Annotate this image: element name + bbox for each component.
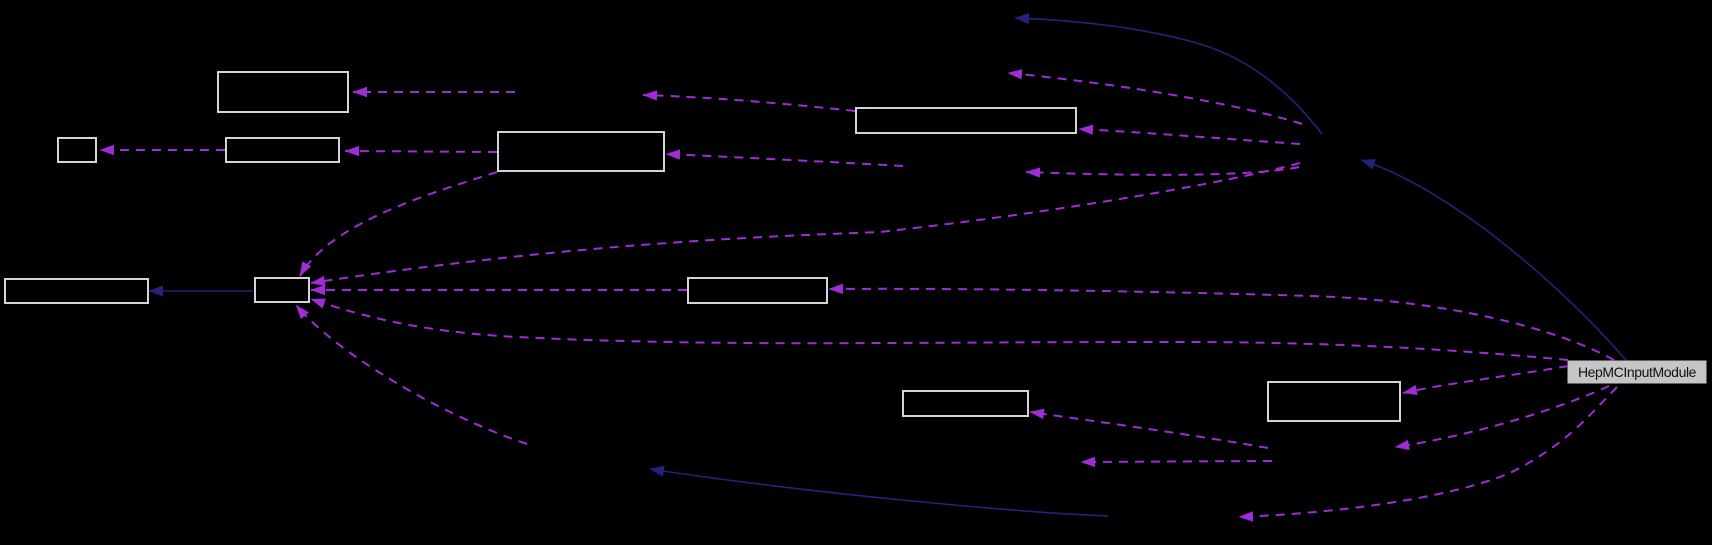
edge P10 (long curve to G upper-right) xyxy=(311,163,1300,283)
edge P19 (flat bottom short) xyxy=(1081,461,1272,462)
edge P15 (D to G top) xyxy=(300,172,497,276)
edge P13 (K to G long flat curve) xyxy=(311,299,1568,360)
node K HepMCInputModule (gray filled) xyxy=(1568,361,1706,383)
node J (bottom-right two-line box) xyxy=(1268,382,1400,421)
node A (top-left two-line box) xyxy=(218,72,348,112)
node G (small hub box) xyxy=(255,278,309,302)
edge P12 (H to G) xyxy=(311,289,687,291)
edge P9 (to mid-air arrowhead y172) xyxy=(1026,167,1299,175)
node C xyxy=(226,138,339,162)
edge P14 (curve to G bottom) xyxy=(296,305,527,444)
node H (center box) xyxy=(688,278,827,303)
node E (wide top-center box) xyxy=(856,108,1076,133)
node I (bottom-center box) xyxy=(903,391,1028,416)
edge P7 (into E right) xyxy=(1079,129,1300,144)
edge blue B2 (from K top up-left) xyxy=(1361,160,1626,360)
edge P4 (D to C) xyxy=(345,151,497,152)
edge P20 (into I) xyxy=(1030,412,1268,448)
edge P18 (K to bottom mid-air) xyxy=(1239,387,1617,517)
edge P5 (into D from mid-air) xyxy=(666,154,903,166)
edge P16 (K to J) xyxy=(1403,366,1568,393)
edge P3 (C to B) xyxy=(100,149,225,151)
edge P8 (to mid-air arrowhead upper) xyxy=(1008,73,1302,124)
edge blue B3 (bottom arc) xyxy=(650,469,1108,516)
edge P2 (from E left to mid-air) xyxy=(643,95,855,111)
edge P17 (K to mid-air lower) xyxy=(1395,386,1609,447)
node B (small far-left box) xyxy=(58,138,96,162)
edge blue B1 (arc to top-left arrowhead) xyxy=(1015,18,1322,134)
edge P11 (K to H) xyxy=(829,289,1614,360)
svg-text:HepMCInputModule: HepMCInputModule xyxy=(1578,364,1697,380)
node D (two-line box) xyxy=(498,132,664,171)
edge P1 (into A) xyxy=(353,91,515,93)
edge blue B4 (G to F) xyxy=(149,290,253,292)
node F (far-left middle box) xyxy=(5,279,148,303)
